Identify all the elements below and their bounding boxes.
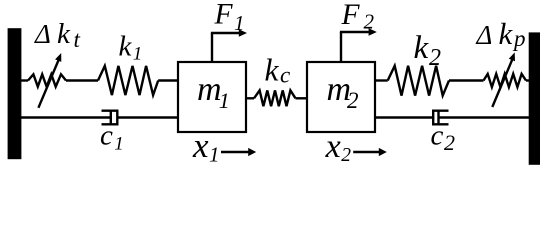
wire wall to adjustable spring [20, 79, 28, 81]
arrow through delta-kt [38, 53, 61, 108]
wire m2 to damper c2 [375, 116, 434, 118]
force F1 arrow [211, 29, 247, 63]
label F2 [341, 0, 375, 34]
wire wall to damper c1 [20, 116, 111, 118]
label x1 [192, 126, 220, 166]
svg-text:Δ: Δ [34, 19, 51, 49]
wire k2 to delta-kp [449, 79, 484, 81]
svg-text:x: x [325, 128, 341, 165]
label F1 [214, 0, 245, 35]
label c2 [431, 120, 456, 155]
mass m2 box [307, 62, 375, 132]
displacement x1 arrow [221, 148, 256, 156]
wire k1 to m1 [158, 79, 178, 81]
svg-text:k: k [57, 18, 71, 50]
label delta-kt [34, 18, 81, 52]
svg-text:F: F [341, 0, 361, 31]
svg-text:2: 2 [364, 10, 375, 34]
label m2 [327, 71, 359, 113]
svg-text:1: 1 [219, 88, 230, 113]
svg-text:x: x [192, 126, 209, 165]
damper c1 housing [102, 111, 118, 125]
wire delta-kt to k1 [66, 79, 98, 81]
coupling spring kc [246, 90, 307, 106]
svg-text:2: 2 [347, 88, 359, 113]
label k1 [119, 31, 143, 65]
damper c1 piston [110, 112, 112, 124]
wire damper c2 to wall [439, 116, 531, 118]
svg-text:k: k [265, 53, 280, 88]
label k2 [414, 30, 442, 71]
adjustable spring delta-kt [28, 74, 66, 86]
label m1 [197, 71, 230, 113]
svg-text:k: k [119, 31, 133, 63]
displacement x2 arrow [353, 148, 387, 156]
svg-text:1: 1 [133, 44, 143, 65]
svg-text:k: k [499, 16, 514, 51]
svg-text:2: 2 [429, 45, 441, 71]
svg-text:2: 2 [341, 145, 351, 166]
svg-text:F: F [214, 0, 234, 31]
label c1 [100, 120, 124, 155]
svg-text:c: c [100, 120, 113, 152]
svg-text:1: 1 [234, 11, 245, 35]
label x2 [325, 128, 352, 166]
wire delta-kp to wall [526, 79, 530, 81]
svg-text:c: c [280, 63, 290, 88]
damper c2 housing [433, 111, 448, 125]
svg-text:p: p [512, 26, 526, 51]
label kc [265, 53, 291, 88]
spring k1 [98, 66, 158, 95]
svg-text:2: 2 [444, 130, 455, 155]
wire damper c1 to m1 [117, 116, 178, 118]
svg-text:c: c [431, 120, 444, 152]
force F2 arrow [340, 28, 377, 63]
arrow through delta-kp [492, 52, 515, 107]
left wall [8, 28, 22, 159]
spring k2 [388, 66, 449, 96]
mass m1 box [178, 62, 246, 132]
svg-text:1: 1 [114, 134, 124, 155]
right wall [529, 32, 540, 164]
adjustable spring delta-kp [484, 74, 527, 87]
wire m2 to k2 [375, 79, 388, 81]
svg-text:k: k [414, 30, 430, 66]
svg-text:t: t [74, 27, 81, 52]
label delta-kp [476, 16, 526, 51]
svg-text:1: 1 [209, 142, 220, 166]
svg-text:Δ: Δ [476, 20, 493, 50]
damper c2 piston [437, 112, 439, 124]
